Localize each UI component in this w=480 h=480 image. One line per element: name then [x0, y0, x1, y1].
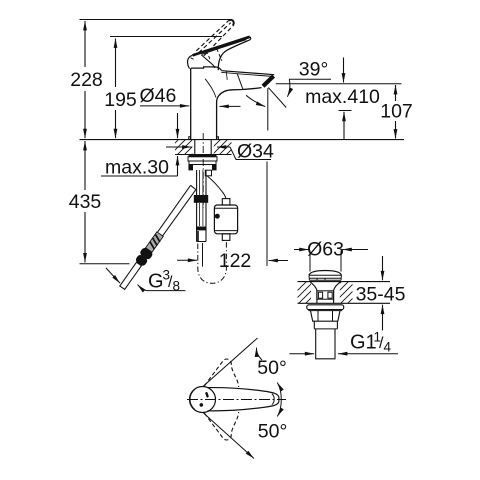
- flexible hose diagonal with G3/8 end: [117, 185, 196, 291]
- svg-text:8: 8: [173, 279, 181, 294]
- drain flange and locknut: [307, 305, 344, 359]
- countertop section: [80, 138, 405, 156]
- dimension text 435: [69, 191, 102, 213]
- faucet centre axis line: [202, 133, 204, 208]
- control box: [214, 199, 237, 241]
- drain valve cap: [309, 271, 341, 281]
- svg-text:195: 195: [104, 89, 137, 111]
- svg-text:max.30: max.30: [105, 157, 169, 179]
- plan view: dashed lever rotated up: [204, 359, 238, 387]
- svg-text:Ø63: Ø63: [307, 238, 344, 260]
- plan view: swing arc with arrows: [277, 383, 281, 417]
- svg-text:max.410: max.410: [305, 86, 380, 108]
- drain valve: diameter 63 dimension: [294, 250, 368, 272]
- svg-text:228: 228: [70, 69, 103, 91]
- dimension 107: [395, 85, 397, 139]
- label diameter 34 with arrows and leader: [166, 147, 271, 266]
- label G 1 1/4: [289, 353, 398, 355]
- basin deck section at drain: [283, 281, 390, 305]
- svg-text:107: 107: [380, 101, 413, 123]
- plan view: centre line: [187, 399, 286, 401]
- faucet shank through counter hole: [195, 140, 211, 155]
- plan view: dashed lever rotated down: [204, 412, 238, 440]
- label max.30 with leader: [101, 113, 178, 176]
- lever handle (solid, down position): [188, 37, 251, 70]
- dimension 435 vertical line with arrows: [80, 141, 130, 283]
- svg-text:Ø34: Ø34: [237, 141, 274, 163]
- dimension 228 vertical line with arrows: [80, 20, 232, 139]
- svg-text:50°: 50°: [258, 421, 288, 443]
- dimension text 228: [70, 69, 103, 91]
- plan view: 50 degree reference lines: [204, 338, 263, 459]
- lever handle raised (dashed): [196, 21, 233, 56]
- drain valve body in deck: [310, 282, 340, 303]
- dimension text 195: [104, 89, 137, 111]
- shank tube with fittings below counter: [194, 170, 208, 267]
- spout swivel arc with arrow: [246, 95, 265, 106]
- dimension 122: [177, 259, 288, 261]
- plan view: 50 degree labels: [257, 357, 287, 443]
- svg-text:4: 4: [384, 340, 392, 355]
- svg-text:G: G: [148, 271, 164, 293]
- faucet body and spout: [189, 67, 274, 139]
- connection cable to control box: [207, 176, 226, 199]
- label diameter 46 with arrows: [140, 105, 241, 108]
- hose loop outline (dash-dot U): [198, 241, 227, 284]
- dimension max.410: [276, 58, 402, 140]
- hose stub at shank: [205, 170, 211, 176]
- svg-text:435: 435: [69, 191, 102, 213]
- dimension 195 vertical line with arrows: [110, 37, 222, 139]
- plan view: lever pivot circle: [190, 387, 216, 413]
- plan view: lever bar: [208, 388, 279, 411]
- label G 3/8 with leader: [137, 285, 185, 291]
- dimension 35-45: [382, 256, 384, 331]
- svg-text:39°: 39°: [299, 59, 329, 81]
- svg-text:50°: 50°: [257, 357, 287, 379]
- svg-text:122: 122: [219, 250, 252, 272]
- svg-text:35-45: 35-45: [356, 283, 406, 305]
- 39 degree reference lines at spout: [268, 88, 286, 131]
- svg-text:Ø46: Ø46: [140, 85, 177, 107]
- mounting hardware under counter: [188, 155, 217, 170]
- dimension 39 degrees: [287, 79, 331, 97]
